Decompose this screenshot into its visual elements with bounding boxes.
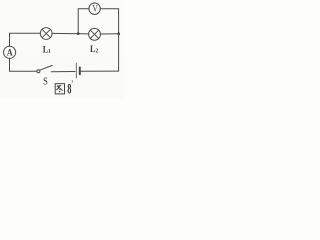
wire: L1 to L2	[52, 32, 89, 35]
svg-text:8: 8	[67, 80, 71, 97]
stray tick mark above 8	[71, 80, 74, 82]
battery long plate	[75, 63, 77, 78]
lamp L2	[89, 28, 101, 40]
wire: switch to battery	[51, 71, 75, 73]
switch lever	[40, 65, 52, 70]
wire: voltmeter right to corner and right edge down	[100, 9, 118, 71]
svg-text:S: S	[43, 77, 48, 88]
switch S pivot	[37, 70, 40, 73]
ammeter A	[4, 46, 16, 58]
voltmeter V	[89, 3, 100, 14]
wire: voltmeter branch left riser	[78, 9, 89, 34]
caption 图 (hand-drawn vector glyph)	[55, 84, 64, 94]
wire: ammeter down to bottom wire and to switch	[10, 58, 37, 71]
svg-text:V: V	[92, 4, 97, 14]
svg-text:A: A	[7, 47, 13, 58]
battery short plate	[79, 67, 81, 74]
lamp L1	[40, 28, 52, 40]
wire: L2 to right edge	[100, 33, 118, 35]
node junction between L1 and L2	[77, 32, 80, 35]
paper background	[0, 0, 124, 98]
wire: left riser from ammeter up and top wire to L1	[10, 33, 41, 46]
wire: battery to bottom-right corner	[81, 70, 119, 72]
node junction at right edge	[117, 32, 120, 35]
